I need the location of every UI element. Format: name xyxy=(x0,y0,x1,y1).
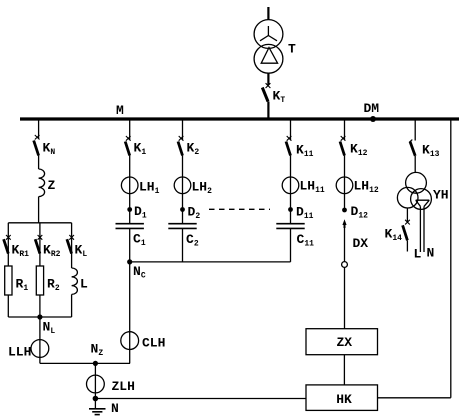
svg-text:HK: HK xyxy=(336,392,352,407)
bus bar M xyxy=(20,117,459,120)
svg-text:N: N xyxy=(111,401,119,416)
wire NZ down xyxy=(94,363,96,398)
node NC xyxy=(127,259,132,264)
switch KR2 xyxy=(38,235,43,240)
node NZ xyxy=(93,361,98,366)
svg-text:T: T xyxy=(288,42,296,57)
svg-text:Z: Z xyxy=(48,178,56,193)
current transformer ZLH xyxy=(87,375,105,393)
switch KL xyxy=(69,235,74,240)
svg-text:CLH: CLH xyxy=(142,336,165,351)
node DM dot xyxy=(370,116,376,122)
switch K12 xyxy=(341,136,346,141)
voltage transformer YH bottom-left circle xyxy=(397,187,418,208)
wire branch KL xyxy=(71,223,73,268)
reactor Z coil xyxy=(39,169,45,197)
capacitor C2 xyxy=(168,223,196,225)
resistor R1 xyxy=(5,266,12,295)
node D11 xyxy=(288,207,293,212)
svg-text:DM: DM xyxy=(364,101,380,116)
wire N to HK xyxy=(95,398,306,400)
node N junction xyxy=(93,396,99,402)
wire dashed continuation D2..D11 xyxy=(209,208,270,210)
switch K11 xyxy=(287,136,292,141)
svg-text:L: L xyxy=(414,247,422,262)
switch K2 xyxy=(179,136,184,141)
current transformer LH2 xyxy=(174,177,191,194)
node NL xyxy=(37,314,42,319)
switch K14 xyxy=(405,220,410,225)
switch K1 xyxy=(126,136,131,141)
node D2 xyxy=(180,207,185,212)
wire branch KR1 xyxy=(7,223,9,317)
wire C2 to NC rail xyxy=(182,229,184,262)
wire K12 to LH12 xyxy=(344,156,346,211)
wire C11 to NC rail xyxy=(290,229,292,262)
box ZX xyxy=(306,329,378,355)
wire L lead xyxy=(419,206,421,252)
wire bus to K13 xyxy=(414,121,416,141)
voltage transformer YH top circle xyxy=(406,172,427,193)
svg-text:ZLH: ZLH xyxy=(112,379,135,394)
wire RL network bottom rail xyxy=(8,316,71,318)
wire NC down to CLH xyxy=(129,262,131,364)
wire bottom rail NZ xyxy=(40,362,130,364)
wire transformer to switch KT xyxy=(267,73,269,85)
wire KN to reactor Z xyxy=(38,156,40,170)
transformer T primary lead wire xyxy=(267,7,269,20)
wire DX to ZX xyxy=(344,267,346,328)
switch KN xyxy=(35,135,40,140)
current transformer LH11 xyxy=(282,177,299,194)
wire Z to RL network xyxy=(38,197,40,223)
switch KR1 xyxy=(6,235,11,240)
wire K13 to YH xyxy=(414,156,416,173)
current transformer LH12 xyxy=(336,177,353,194)
wire RL network top rail xyxy=(8,222,71,224)
current transformer LLH xyxy=(31,340,49,358)
current transformer CLH xyxy=(121,332,139,350)
resistor R2 xyxy=(36,266,43,295)
wire D1 to C1 xyxy=(129,210,131,224)
wire bus to KN xyxy=(38,121,40,139)
wire KT to bus xyxy=(267,102,269,118)
wire YH to K14 xyxy=(406,208,408,222)
svg-text:YH: YH xyxy=(433,188,449,203)
switch K13 xyxy=(410,142,415,156)
socket circle DX xyxy=(342,262,348,268)
capacitor C1 xyxy=(116,223,144,225)
YH secondary funnel symbol xyxy=(416,200,430,206)
wire DX down xyxy=(344,225,346,262)
svg-text:N: N xyxy=(427,246,435,261)
wire bus to K12 xyxy=(344,121,346,140)
transformer T bottom winding circle with delta symbol xyxy=(254,44,283,73)
wire bus to K2 xyxy=(182,121,184,140)
transformer T top winding circle with wye symbol xyxy=(254,20,283,49)
wire N lead xyxy=(423,206,425,252)
wire K1 to LH1 xyxy=(129,156,131,210)
wire branch KR2 xyxy=(39,223,41,317)
wire D2 to C2 xyxy=(182,210,184,224)
wire bus to K11 xyxy=(290,121,292,140)
wire C1 to NC xyxy=(129,229,131,262)
wire ZX to HK xyxy=(343,355,345,385)
capacitor C11 xyxy=(276,223,304,225)
svg-text:M: M xyxy=(116,103,124,118)
inductor L coil xyxy=(72,268,78,294)
svg-text:DX: DX xyxy=(353,236,369,251)
wire bus to K1 xyxy=(129,121,131,140)
voltage transformer YH bottom-right circle xyxy=(411,189,432,210)
svg-text:LLH: LLH xyxy=(8,345,31,360)
wire HK right to riser xyxy=(378,397,451,399)
wire riser bus right xyxy=(450,121,452,398)
wire NC rail xyxy=(130,261,291,263)
svg-text:L: L xyxy=(80,277,88,292)
node D1 xyxy=(127,207,132,212)
wire K2 to LH2 xyxy=(182,156,184,210)
box HK xyxy=(306,385,378,411)
wire D11 to C11 xyxy=(290,210,292,224)
node D12 xyxy=(342,208,347,213)
wire K11 to LH11 xyxy=(290,156,292,210)
current transformer LH1 xyxy=(121,177,138,194)
wire NL down xyxy=(39,317,41,363)
svg-text:ZX: ZX xyxy=(337,335,353,350)
ground xyxy=(94,399,96,409)
switch KT xyxy=(266,83,271,88)
arrow plug DX pointing up xyxy=(342,219,346,225)
